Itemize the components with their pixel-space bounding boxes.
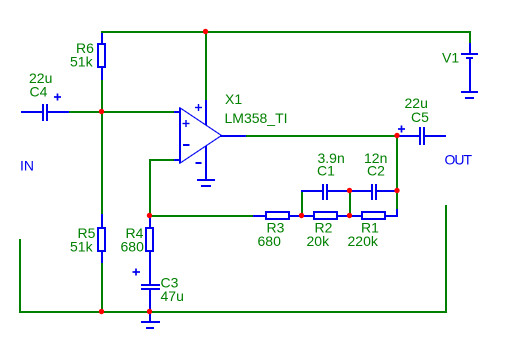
svg-text:IN: IN [20,158,34,174]
svg-text:C1: C1 [317,163,335,179]
C4 polarity plus [54,96,61,98]
node top rail / V+ [203,29,208,34]
wire input row [68,111,175,113]
svg-text:X1: X1 [225,91,242,107]
svg-text:V1: V1 [442,50,459,66]
svg-text:20k: 20k [307,233,331,249]
op-amp X1 supply pin V+ [205,100,207,125]
battery V1 [461,43,478,91]
wire C1 left drop [301,191,303,216]
capacitor C2 [350,184,397,200]
resistor R2 [302,212,350,219]
wire output row [245,135,398,137]
node C2 output leg [394,188,399,193]
wire feedback row [149,215,259,217]
wire op-amp V+ supply [205,31,207,101]
svg-text:LM358_TI: LM358_TI [225,110,288,126]
svg-text:C4: C4 [30,84,48,100]
svg-text:51k: 51k [70,239,94,255]
svg-text:680: 680 [258,233,282,249]
resistor R4 [146,216,153,285]
capacitor C4 [21,104,69,121]
node bottom C3 [147,309,152,314]
wire left stub [19,239,21,313]
node bottom R5 [99,309,104,314]
op-amp non-inverting mark [183,123,190,125]
wire V1 top lead [469,31,471,44]
wire C1 C2 mid drop [349,191,351,216]
svg-text:51k: 51k [70,54,94,70]
resistor R1 [350,209,397,219]
op-amp X1 output pin [220,135,246,137]
resistor R3 [253,212,302,219]
svg-text:C2: C2 [367,163,385,179]
C3 polarity plus [133,271,141,273]
op-amp X1 supply pin V- and ground stem [205,146,207,180]
svg-text:680: 680 [121,239,145,255]
wire right stub [445,205,447,313]
op-amp inverting mark [183,144,190,146]
op-amp V+ mark [195,107,202,109]
op-amp X1 triangle body [180,108,222,164]
wire inverting input [149,159,175,161]
wire output down [396,135,398,210]
ground under V1 [461,92,478,98]
node R3 R2 [299,213,304,218]
C5 polarity plus [398,128,405,130]
wire R5 bottom [101,262,103,312]
ground under op-amp [197,180,215,186]
capacitor C3 [141,285,160,312]
svg-text:OUT: OUT [445,152,473,168]
wire top rail [101,31,471,33]
node C1 C2 [347,188,352,193]
node input [99,109,104,114]
svg-text:C5: C5 [411,109,429,125]
node output [394,133,399,138]
op-amp X1 input pins [174,112,180,160]
op-amp plus minus marks [183,104,203,163]
resistor R5 [98,214,105,263]
node R2 R1 [347,213,352,218]
wire feedback vertical [149,159,151,216]
capacitor C5 [398,127,446,145]
capacitor C1 [301,184,350,200]
op-amp V- mark [196,162,202,164]
ground under C3 [141,312,160,328]
svg-text:220k: 220k [348,233,379,249]
wire bottom rail [19,311,447,313]
resistor R6 [98,33,105,80]
svg-text:47u: 47u [161,288,184,304]
wire R6 bottom to R5 top [101,80,103,215]
node feedback R4 [147,213,152,218]
